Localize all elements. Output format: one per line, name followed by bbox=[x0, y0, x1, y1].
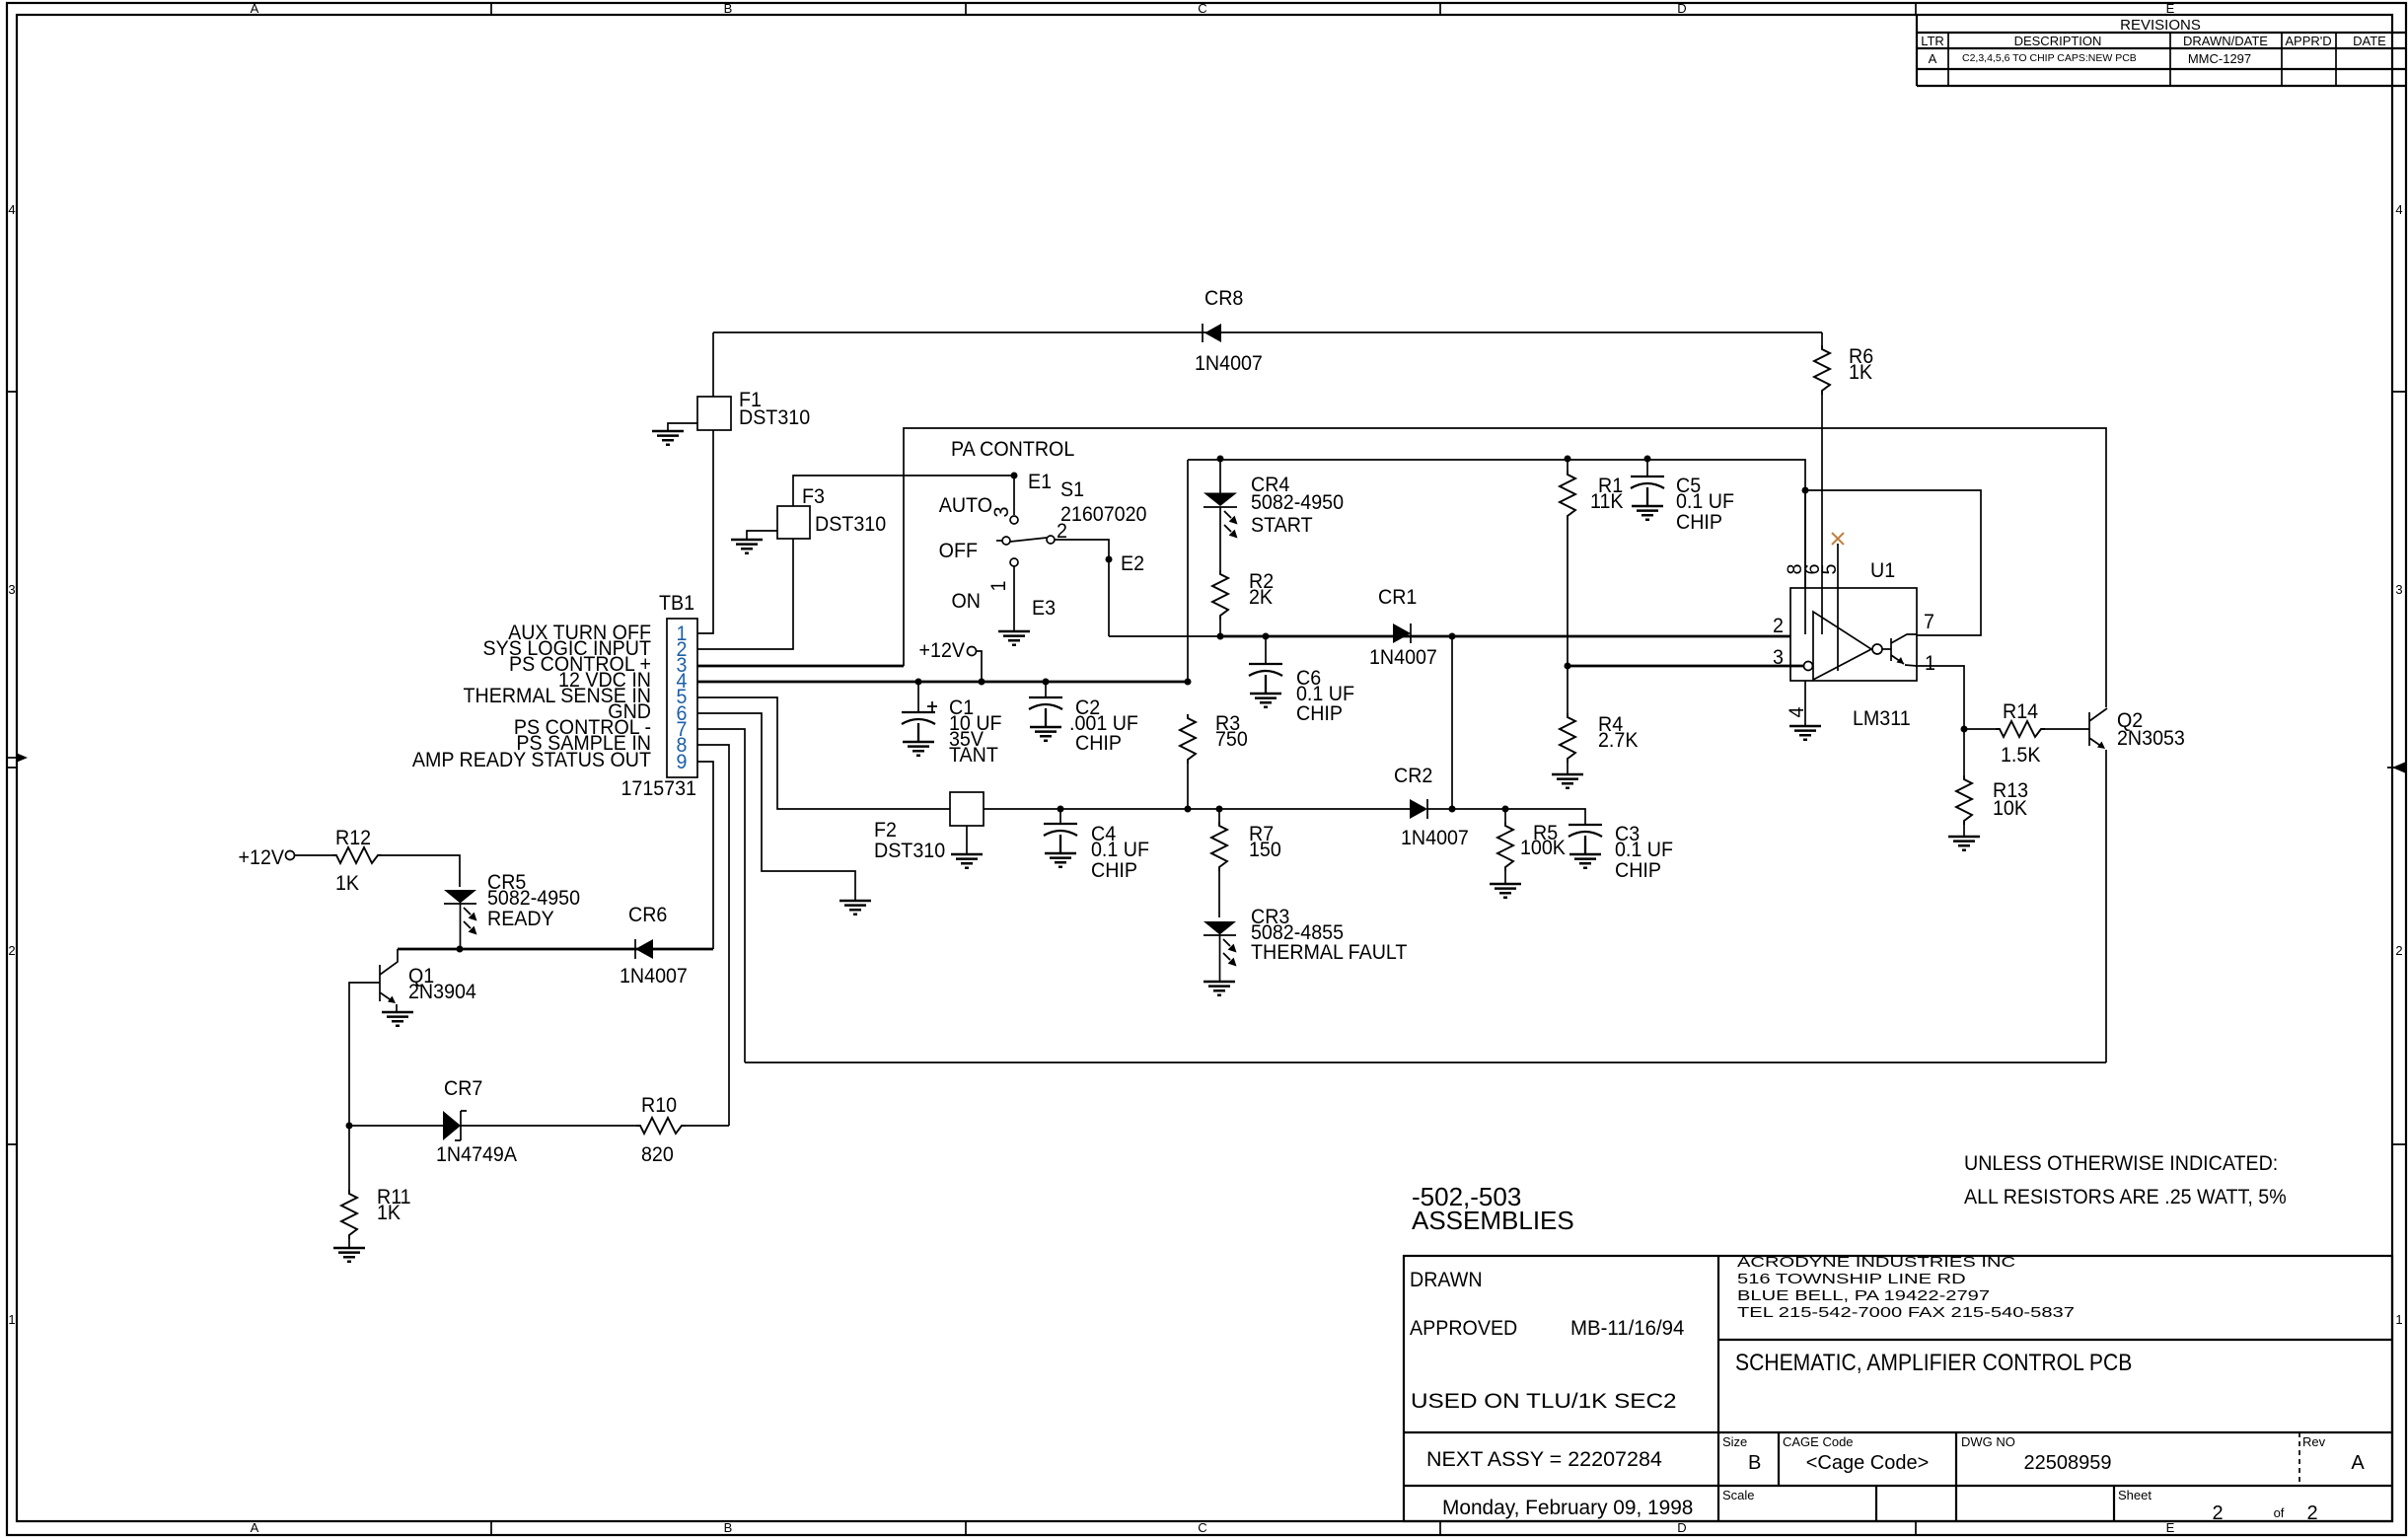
wire PS CONTROL + top run bbox=[904, 428, 2106, 707]
svg-text:9: 9 bbox=[677, 750, 688, 773]
svg-text:DST310: DST310 bbox=[874, 839, 945, 862]
capacitor C1 bbox=[902, 712, 935, 742]
switch S1 contact 2 circle bbox=[1047, 536, 1055, 544]
svg-text:Size: Size bbox=[1722, 1434, 1747, 1449]
svg-text:+12V: +12V bbox=[239, 845, 285, 869]
resistor R12 bbox=[332, 847, 382, 863]
capacitor C5 bbox=[1631, 476, 1664, 506]
svg-text:2: 2 bbox=[2395, 943, 2402, 958]
border zone ticks bottom bbox=[491, 1521, 1916, 1535]
zener CR7 bbox=[443, 1111, 461, 1140]
svg-text:7: 7 bbox=[1924, 610, 1934, 633]
svg-text:of: of bbox=[2274, 1505, 2285, 1520]
LED CR3 bbox=[1204, 921, 1236, 935]
svg-text:1K: 1K bbox=[1849, 360, 1872, 384]
svg-text:A: A bbox=[1929, 51, 1937, 66]
node R4 divider junction bbox=[1565, 663, 1571, 670]
node R5 top junction bbox=[1502, 806, 1509, 813]
switch S1 contact 1 to ground wire bbox=[1013, 566, 1015, 631]
svg-text:ACRODYNE INDUSTRIES INC: ACRODYNE INDUSTRIES INC bbox=[1737, 1254, 2015, 1271]
svg-text:21607020: 21607020 bbox=[1060, 502, 1146, 526]
svg-text:A: A bbox=[2351, 1452, 2365, 1474]
svg-text:5082-4950: 5082-4950 bbox=[1251, 490, 1344, 514]
+12V terminal circle left bbox=[286, 851, 295, 860]
svg-text:2K: 2K bbox=[1249, 585, 1273, 609]
border zone ticks left bbox=[7, 392, 17, 1144]
LED CR4 bbox=[1204, 493, 1237, 507]
revisions table frame bbox=[1917, 15, 2406, 86]
svg-text:DESCRIPTION: DESCRIPTION bbox=[2014, 34, 2102, 48]
wire R3 top from rail to +12 bus bbox=[1187, 460, 1189, 682]
U1 pin5 no-connect X bbox=[1832, 533, 1844, 545]
wire divider to U1 pin3 bbox=[1568, 665, 1804, 668]
svg-text:C: C bbox=[1198, 1520, 1206, 1535]
svg-text:E1: E1 bbox=[1028, 470, 1052, 493]
wire C5 stem bbox=[1646, 459, 1648, 476]
svg-text:2: 2 bbox=[2306, 1502, 2317, 1524]
title block rev divider dashed bbox=[2299, 1432, 2300, 1486]
wire C4 stem bbox=[1059, 809, 1061, 824]
op-amp U1 triangle bbox=[1813, 612, 1871, 680]
wire R14 to Q2 base bbox=[2045, 728, 2089, 730]
wire pin2 to F3 bbox=[697, 539, 793, 649]
svg-text:R10: R10 bbox=[641, 1093, 677, 1117]
border zone ticks right bbox=[2392, 392, 2406, 1144]
svg-text:1N4007: 1N4007 bbox=[1369, 645, 1437, 669]
wire pin1 to F1 bbox=[697, 430, 713, 633]
svg-text:150: 150 bbox=[1249, 838, 1281, 861]
svg-text:1: 1 bbox=[2395, 1312, 2402, 1327]
svg-text:22508959: 22508959 bbox=[2024, 1452, 2112, 1474]
+12V terminal circle bbox=[968, 647, 977, 656]
svg-text:2: 2 bbox=[2212, 1502, 2223, 1524]
svg-text:10K: 10K bbox=[1993, 796, 2027, 820]
wire pin8 down to R10 bbox=[697, 745, 729, 1126]
U1 pin8 wire bbox=[1804, 490, 1806, 634]
wire junction to CR7 bbox=[349, 1125, 443, 1127]
svg-text:TB1: TB1 bbox=[659, 591, 694, 615]
wire C6 stem bbox=[1265, 636, 1267, 664]
svg-text:750: 750 bbox=[1215, 727, 1248, 751]
node E2 junction bbox=[1106, 556, 1113, 563]
terminal block TB1 bbox=[667, 619, 697, 777]
wire E2 to inverting row bbox=[1109, 635, 1220, 637]
node C6 junction bbox=[1263, 633, 1270, 640]
title block dividers bbox=[1404, 1256, 2392, 1521]
center arrow right border bbox=[2387, 767, 2406, 769]
svg-text:USED ON TLU/1K SEC2: USED ON TLU/1K SEC2 bbox=[1411, 1388, 1677, 1412]
ground at R5 bbox=[1490, 884, 1521, 898]
wire CR1 junction down to CR2 rail bbox=[1451, 636, 1453, 809]
svg-text:CR1: CR1 bbox=[1378, 585, 1417, 609]
U1 pin3 inverting bubble bbox=[1804, 662, 1813, 671]
LED CR5 bbox=[444, 890, 476, 904]
node R1 top junction bbox=[1565, 456, 1571, 463]
transistor Q1 bbox=[380, 949, 398, 1001]
wire F2 to ground bbox=[966, 826, 968, 854]
svg-text:1: 1 bbox=[1925, 651, 1935, 675]
svg-text:CHIP: CHIP bbox=[1676, 510, 1722, 534]
node R3 top junction bbox=[1185, 679, 1192, 686]
svg-text:1K: 1K bbox=[335, 871, 359, 895]
svg-text:REVISIONS: REVISIONS bbox=[2120, 17, 2201, 34]
svg-text:CR2: CR2 bbox=[1394, 764, 1432, 787]
wire inverting row thick bbox=[1220, 635, 1790, 638]
node R2 bottom junction bbox=[1217, 633, 1224, 640]
wire R3 bottom bbox=[1187, 764, 1189, 809]
svg-text:U1: U1 bbox=[1870, 558, 1895, 582]
diode CR8 bbox=[1204, 324, 1221, 342]
wire pin5 to F2 bbox=[697, 697, 950, 809]
svg-text:E2: E2 bbox=[1121, 551, 1144, 575]
fuse F1 bbox=[697, 397, 731, 430]
ground at C4 bbox=[1045, 853, 1076, 867]
ground at CR3 bbox=[1204, 982, 1235, 995]
svg-text:3: 3 bbox=[989, 507, 1013, 518]
ground at S1 bbox=[998, 631, 1030, 645]
svg-text:100K: 100K bbox=[1520, 836, 1566, 859]
svg-text:START: START bbox=[1251, 513, 1313, 537]
svg-text:4: 4 bbox=[2395, 202, 2402, 217]
svg-text:APPROVED: APPROVED bbox=[1410, 1316, 1517, 1340]
svg-text:E3: E3 bbox=[1032, 596, 1056, 620]
svg-text:1N4749A: 1N4749A bbox=[436, 1142, 517, 1166]
node C2 junction bbox=[1043, 679, 1050, 686]
svg-text:A: A bbox=[251, 1520, 259, 1535]
svg-text:C2,3,4,5,6 TO CHIP CAPS:NEW PC: C2,3,4,5,6 TO CHIP CAPS:NEW PCB bbox=[1962, 52, 2137, 64]
switch S1 pole stub bbox=[996, 540, 1002, 542]
svg-text:<Cage Code>: <Cage Code> bbox=[1806, 1452, 1930, 1474]
node R7 top junction bbox=[1216, 806, 1223, 813]
svg-text:B: B bbox=[1748, 1452, 1761, 1474]
wire pin9 down to CR6 bbox=[697, 762, 713, 949]
wire thermal rail left segment bbox=[984, 808, 1410, 810]
svg-text:MMC-1297: MMC-1297 bbox=[2188, 51, 2251, 66]
svg-text:2.7K: 2.7K bbox=[1598, 728, 1639, 752]
resistor R4 bbox=[1560, 713, 1575, 763]
svg-text:READY: READY bbox=[487, 907, 554, 930]
wire U1 pin1 to R13 junction bbox=[1917, 666, 1964, 729]
resistor R6 bbox=[1814, 345, 1830, 395]
svg-text:APPR'D: APPR'D bbox=[2285, 34, 2331, 48]
svg-text:LTR: LTR bbox=[1921, 34, 1944, 48]
transistor Q2 bbox=[2089, 708, 2107, 747]
wire F3 top to switch E1 bbox=[793, 476, 1014, 506]
svg-text:11K: 11K bbox=[1590, 489, 1624, 513]
wire C1 stem bbox=[917, 682, 919, 712]
wire R5 stems bbox=[1504, 809, 1506, 884]
wire R10 right end bbox=[686, 1125, 729, 1127]
svg-text:3: 3 bbox=[2395, 582, 2402, 597]
svg-text:DST310: DST310 bbox=[739, 405, 810, 429]
wire +12V to R12 bbox=[295, 854, 332, 856]
U1 pin4 ground wire bbox=[1804, 681, 1806, 726]
node R13 R14 junction bbox=[1961, 726, 1968, 733]
svg-text:CR6: CR6 bbox=[628, 903, 667, 926]
svg-text:UNLESS OTHERWISE INDICATED:: UNLESS OTHERWISE INDICATED: bbox=[1964, 1151, 2278, 1175]
C1 plus sign bbox=[927, 701, 937, 711]
ground at C1 bbox=[903, 742, 934, 756]
ground at R13 bbox=[1948, 837, 1980, 850]
svg-text:B: B bbox=[724, 1, 733, 16]
ground at C6 bbox=[1250, 694, 1281, 707]
svg-text:820: 820 bbox=[641, 1142, 674, 1166]
wire R1 stems bbox=[1567, 459, 1569, 666]
LED CR5 arrows bbox=[464, 908, 477, 921]
switch S1 contact 3 circle bbox=[1010, 516, 1018, 524]
node E1 junction bbox=[1011, 473, 1018, 479]
fuse F2 bbox=[950, 792, 984, 826]
svg-text:E: E bbox=[2166, 1, 2175, 16]
svg-text:OFF: OFF bbox=[939, 539, 978, 562]
revisions table column lines bbox=[1948, 33, 2336, 86]
wire V+ bus run bbox=[1188, 460, 1805, 588]
svg-text:Sheet: Sheet bbox=[2118, 1488, 2152, 1502]
wire pin7 to bottom loop bbox=[697, 729, 745, 1062]
svg-text:1K: 1K bbox=[377, 1201, 401, 1224]
svg-text:C: C bbox=[1198, 1, 1206, 16]
resistor R1 bbox=[1560, 471, 1575, 520]
Q1 emitter to ground bbox=[396, 1004, 398, 1012]
wire +12V stub bbox=[977, 651, 982, 682]
resistor R11 bbox=[341, 1190, 357, 1239]
svg-text:ALL RESISTORS ARE .25 WATT, 5%: ALL RESISTORS ARE .25 WATT, 5% bbox=[1964, 1185, 2287, 1208]
diode CR1 bbox=[1393, 623, 1411, 643]
resistor R10 bbox=[636, 1118, 686, 1134]
node CR1 cathode junction bbox=[1449, 633, 1456, 640]
node CR4 top junction bbox=[1217, 456, 1224, 463]
U1 output transistor emitter arrow bbox=[1897, 657, 1905, 664]
svg-text:R12: R12 bbox=[335, 826, 371, 849]
resistor R13 bbox=[1956, 775, 1972, 825]
wire F3 to ground bbox=[747, 531, 777, 540]
U1 pin5 wire with X bbox=[1837, 544, 1839, 671]
svg-text:1N4007: 1N4007 bbox=[1401, 826, 1469, 849]
svg-text:CR7: CR7 bbox=[444, 1076, 482, 1100]
ground at C5 bbox=[1632, 506, 1663, 520]
svg-text:S1: S1 bbox=[1060, 477, 1084, 501]
svg-text:CHIP: CHIP bbox=[1075, 731, 1122, 755]
fuse F3 bbox=[777, 506, 810, 539]
svg-text:CHIP: CHIP bbox=[1296, 701, 1343, 725]
wire R13 stem bbox=[1963, 729, 1965, 837]
svg-text:2N3904: 2N3904 bbox=[408, 980, 476, 1003]
svg-text:AMP READY STATUS OUT: AMP READY STATUS OUT bbox=[412, 748, 652, 771]
node C4 junction bbox=[1058, 806, 1064, 813]
ground at F1 bbox=[652, 431, 684, 445]
wire bottom loop run bbox=[745, 1062, 2106, 1063]
switch S1 pole circle bbox=[1002, 537, 1010, 545]
Q1 emitter arrow bbox=[388, 996, 396, 1004]
title block frame bbox=[1404, 1256, 2392, 1521]
svg-text:CHIP: CHIP bbox=[1091, 858, 1137, 882]
U1 output transistor bbox=[1882, 634, 1917, 664]
svg-text:NEXT ASSY = 22207284: NEXT ASSY = 22207284 bbox=[1426, 1447, 1662, 1471]
wire Q1 base bbox=[349, 983, 380, 1126]
svg-text:SCHEMATIC, AMPLIFIER CONTROL P: SCHEMATIC, AMPLIFIER CONTROL PCB bbox=[1735, 1350, 2132, 1376]
resistor R7 bbox=[1211, 822, 1227, 871]
node C1 junction bbox=[915, 679, 922, 686]
switch S1 contact 3 wire bbox=[1013, 476, 1015, 515]
node R3 bottom junction bbox=[1185, 806, 1192, 813]
svg-text:1N4007: 1N4007 bbox=[620, 964, 688, 988]
svg-text:R14: R14 bbox=[2003, 699, 2038, 723]
svg-text:DST310: DST310 bbox=[815, 512, 886, 536]
resistor R5 bbox=[1497, 822, 1513, 871]
wire pin6 to ground bbox=[697, 713, 855, 901]
svg-text:B: B bbox=[724, 1520, 733, 1535]
svg-text:THERMAL FAULT: THERMAL FAULT bbox=[1251, 940, 1408, 964]
wire R11 stem bbox=[348, 1126, 350, 1248]
switch S1 arm bbox=[1010, 538, 1047, 542]
svg-text:TANT: TANT bbox=[949, 743, 998, 767]
node C5 junction bbox=[1644, 456, 1651, 463]
wire pin3 to PA control rail bbox=[697, 665, 904, 668]
svg-text:DRAWN: DRAWN bbox=[1410, 1268, 1483, 1291]
svg-text:1: 1 bbox=[986, 581, 1010, 592]
diode CR2 bbox=[1410, 799, 1427, 819]
wire R7 stem top bbox=[1218, 809, 1220, 917]
svg-text:ASSEMBLIES: ASSEMBLIES bbox=[1412, 1206, 1574, 1235]
svg-text:2: 2 bbox=[1773, 614, 1784, 637]
ground at Q1 bbox=[382, 1012, 413, 1026]
capacitor C6 bbox=[1249, 664, 1282, 694]
svg-text:BLUE BELL, PA 19422-2797: BLUE BELL, PA 19422-2797 bbox=[1737, 1287, 1990, 1304]
svg-text:LM311: LM311 bbox=[1853, 706, 1911, 730]
svg-text:1.5K: 1.5K bbox=[2001, 743, 2041, 767]
ground at pin6 bbox=[839, 901, 871, 915]
LED CR3 arrows bbox=[1223, 939, 1237, 953]
border zone ticks top bbox=[491, 3, 1916, 15]
capacitor C4 bbox=[1044, 824, 1077, 853]
ground at F2 bbox=[951, 854, 983, 868]
resistor R14 bbox=[1996, 721, 2045, 737]
wire pin7 pull-up bbox=[1805, 490, 1981, 635]
svg-text:CAGE Code: CAGE Code bbox=[1783, 1434, 1854, 1449]
svg-text:D: D bbox=[1677, 1520, 1686, 1535]
ground at U1 pin4 bbox=[1789, 726, 1821, 740]
svg-text:F3: F3 bbox=[802, 484, 825, 508]
node CR5 bottom junction bbox=[457, 946, 464, 953]
svg-text:PA CONTROL: PA CONTROL bbox=[951, 437, 1074, 461]
wire R4 stems bbox=[1567, 666, 1569, 774]
svg-text:MB-11/16/94: MB-11/16/94 bbox=[1570, 1317, 1685, 1341]
node U1 pin8 pullup junction bbox=[1802, 487, 1809, 494]
svg-text:A: A bbox=[251, 1, 259, 16]
node +12V stub junction bbox=[979, 679, 985, 686]
capacitor C2 bbox=[1029, 697, 1062, 727]
wire CR8 top run bbox=[713, 331, 1822, 333]
capacitor C3 bbox=[1569, 825, 1602, 854]
svg-text:2: 2 bbox=[8, 943, 15, 958]
wire F1 top to CR8 rail bbox=[712, 332, 714, 397]
Q2 emitter arrow bbox=[2097, 742, 2105, 750]
wire R12 to CR5 bbox=[382, 855, 460, 887]
svg-text:1: 1 bbox=[8, 1312, 15, 1327]
wire ready row bbox=[398, 948, 713, 951]
svg-text:1715731: 1715731 bbox=[620, 776, 696, 800]
wire +12V rail pin4 bbox=[697, 681, 1188, 684]
svg-text:5: 5 bbox=[1817, 564, 1841, 575]
svg-text:4: 4 bbox=[8, 202, 15, 217]
LED CR4 arrows bbox=[1224, 511, 1238, 525]
ground at C3 bbox=[1569, 854, 1601, 868]
wire contact2 to E2 bbox=[1055, 540, 1109, 636]
ground at F3 bbox=[731, 540, 763, 553]
wire R6 to U1 pin6 bbox=[1821, 332, 1823, 634]
svg-text:+12V: +12V bbox=[919, 638, 966, 662]
ground at R4 bbox=[1552, 774, 1583, 788]
wire C2 stem bbox=[1045, 682, 1047, 697]
wire F1 to ground bbox=[668, 423, 697, 431]
svg-text:E: E bbox=[2166, 1520, 2175, 1535]
svg-text:DATE: DATE bbox=[2353, 34, 2386, 48]
svg-text:Monday, February 09, 1998: Monday, February 09, 1998 bbox=[1442, 1497, 1693, 1519]
svg-text:D: D bbox=[1677, 1, 1686, 16]
svg-text:DWG NO: DWG NO bbox=[1961, 1434, 2015, 1449]
wire thermal rail right segment bbox=[1427, 809, 1585, 825]
svg-text:3: 3 bbox=[8, 582, 15, 597]
svg-text:CHIP: CHIP bbox=[1615, 858, 1661, 882]
svg-text:1N4007: 1N4007 bbox=[1195, 351, 1263, 375]
U1 output bubble bbox=[1872, 644, 1882, 654]
svg-text:TEL 215-542-7000 FAX 215-540-5: TEL 215-542-7000 FAX 215-540-5837 bbox=[1737, 1304, 2075, 1321]
node CR2 cathode junction bbox=[1449, 806, 1456, 813]
wire junction to R14 bbox=[1964, 728, 1996, 730]
svg-text:AUTO: AUTO bbox=[939, 493, 992, 517]
switch S1 contact 1 circle bbox=[1010, 558, 1018, 566]
diode CR6 bbox=[635, 939, 653, 959]
svg-text:CR8: CR8 bbox=[1204, 286, 1243, 310]
op-amp U1 box bbox=[1790, 588, 1917, 681]
svg-text:Scale: Scale bbox=[1722, 1488, 1755, 1502]
wire Q2 emitter down bbox=[2105, 750, 2107, 1062]
center arrow left border bbox=[7, 757, 22, 759]
ground at C2 bbox=[1030, 727, 1061, 741]
resistor R3 bbox=[1180, 714, 1196, 764]
wire CR7 to R10 bbox=[461, 1125, 636, 1127]
ground at R11 bbox=[333, 1248, 365, 1262]
svg-text:DRAWN/DATE: DRAWN/DATE bbox=[2183, 34, 2268, 48]
svg-text:3: 3 bbox=[1773, 645, 1784, 669]
svg-text:516 TOWNSHIP LINE RD: 516 TOWNSHIP LINE RD bbox=[1737, 1271, 1966, 1287]
svg-text:2N3053: 2N3053 bbox=[2117, 726, 2185, 750]
svg-text:ON: ON bbox=[952, 589, 981, 613]
resistor R2 bbox=[1212, 570, 1228, 620]
node CR7 junction bbox=[346, 1123, 353, 1130]
wire R2 bottom bbox=[1219, 620, 1221, 636]
wire CR4 stem from V+ bus bbox=[1219, 459, 1221, 493]
svg-text:Rev: Rev bbox=[2302, 1434, 2326, 1449]
